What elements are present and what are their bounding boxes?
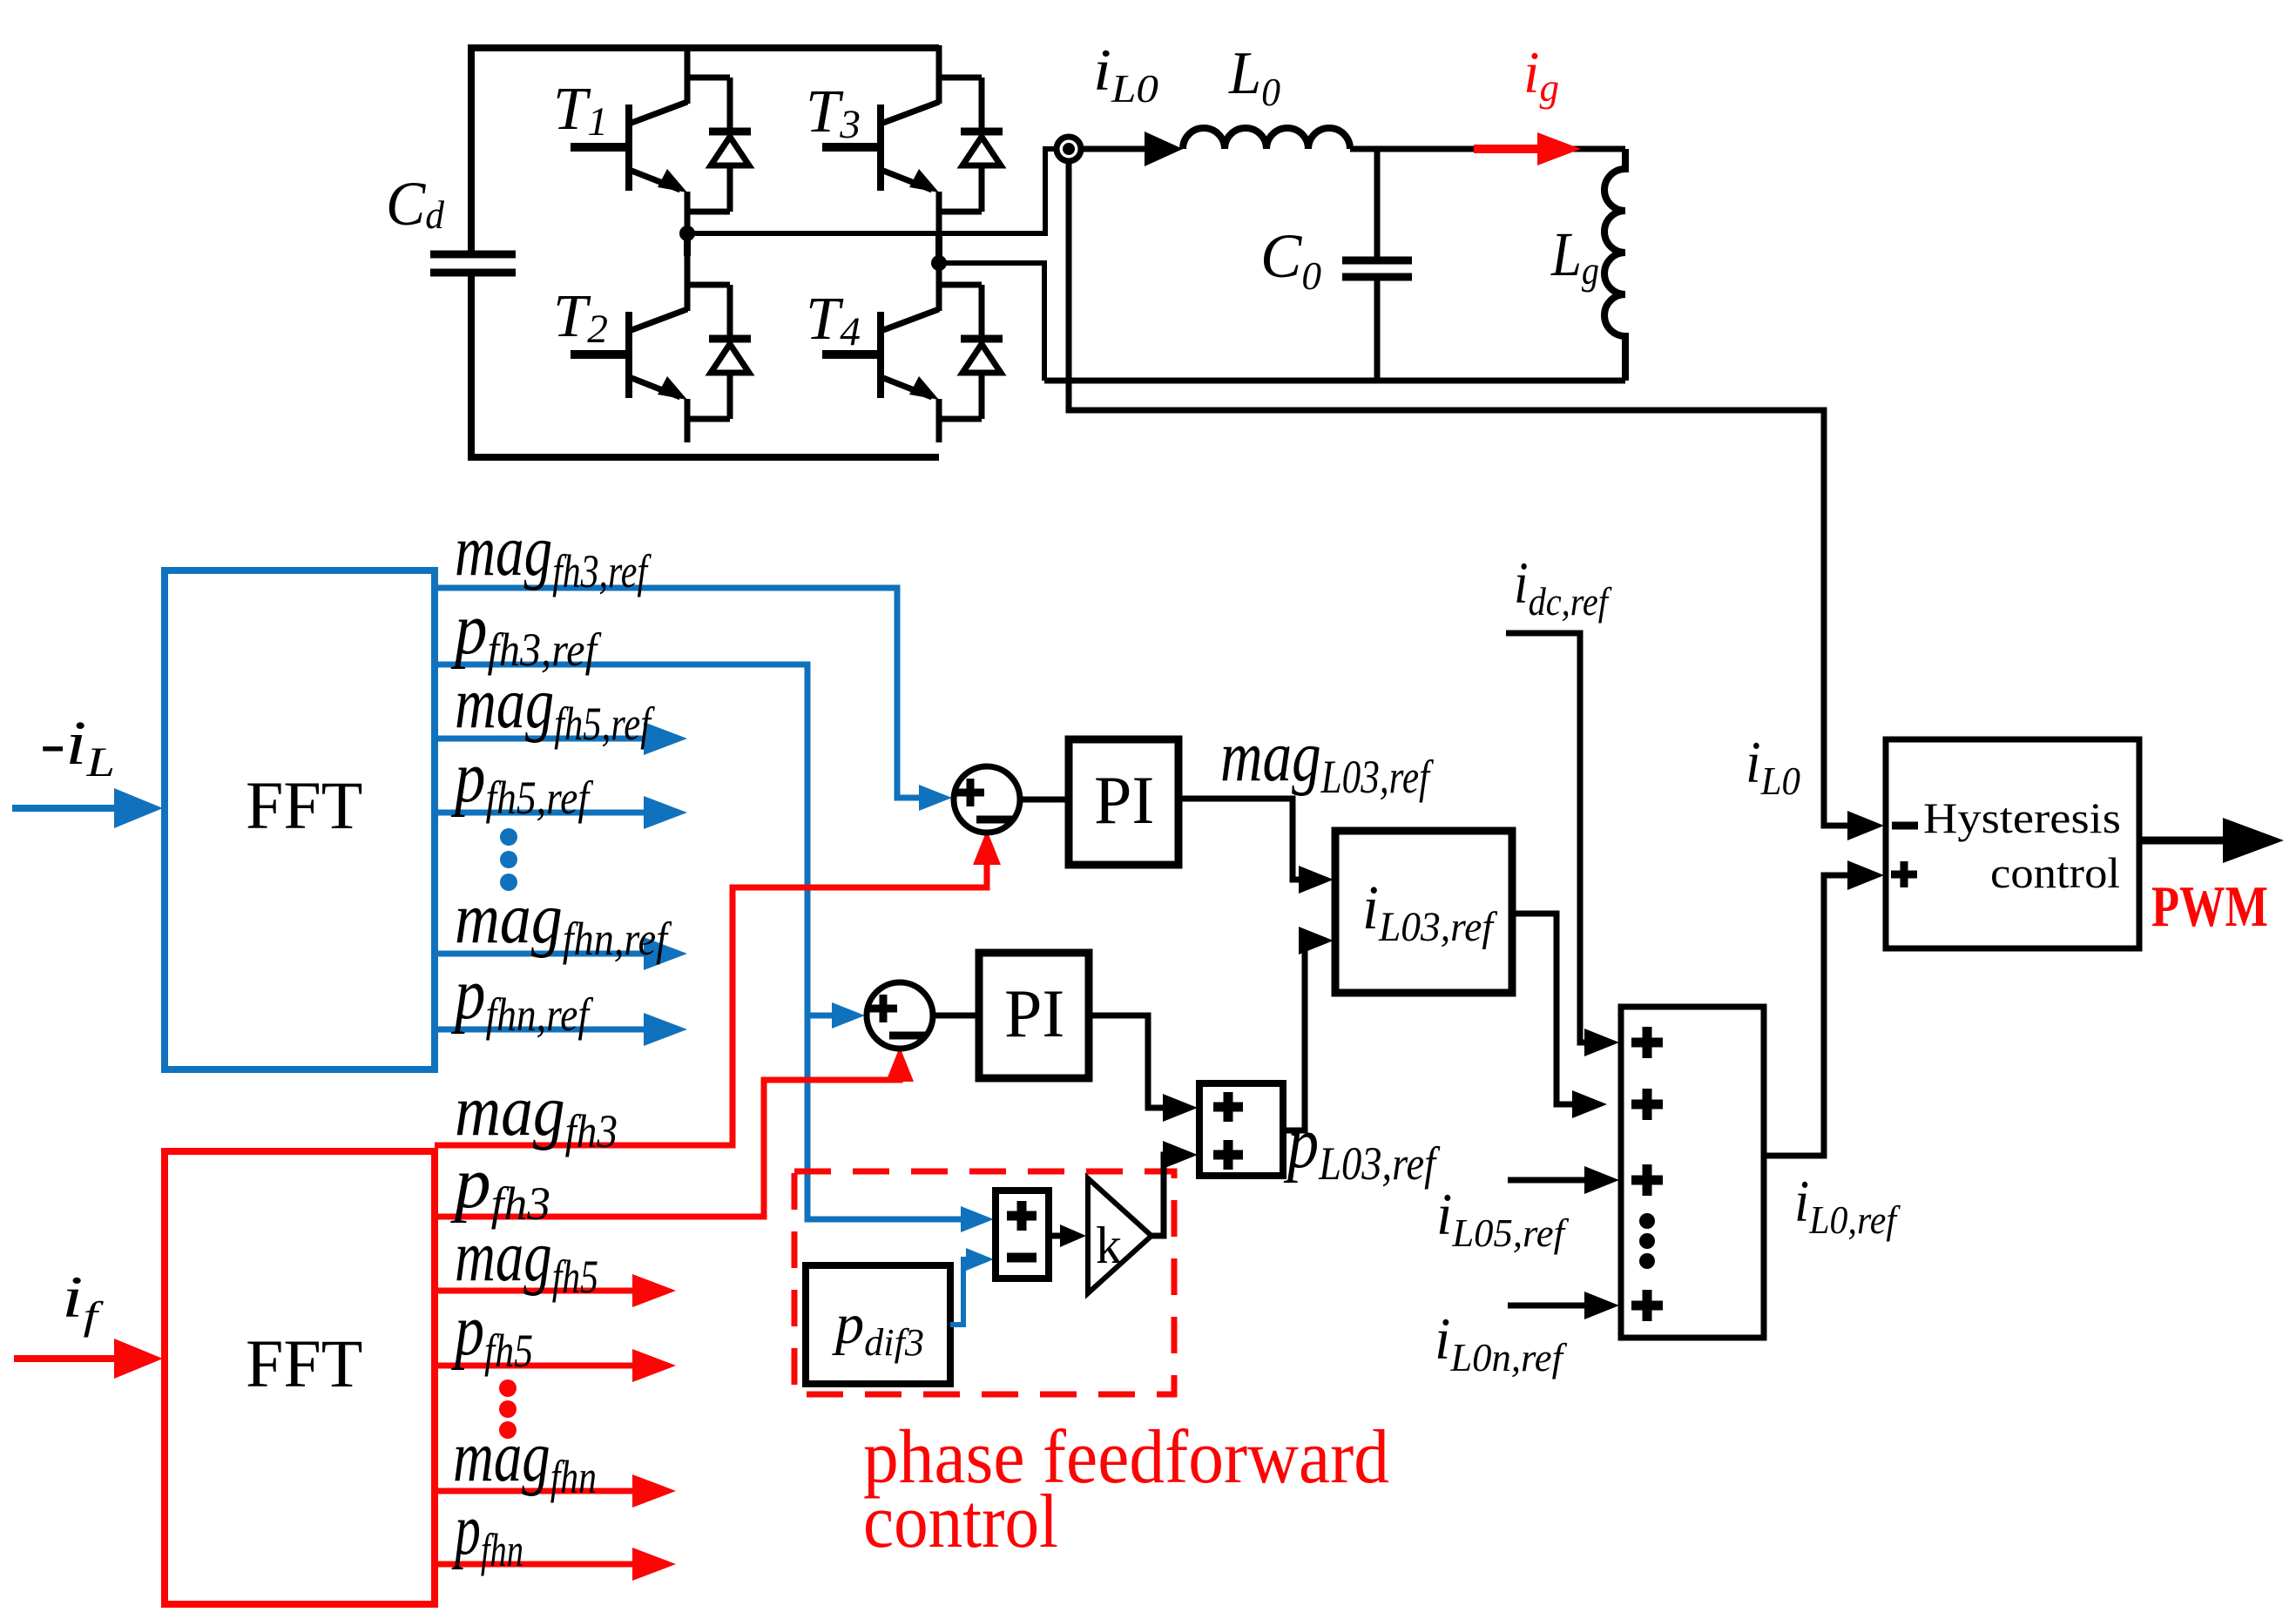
wire pfh5 bbox=[435, 1363, 640, 1369]
wire iL05,ref bbox=[1508, 1177, 1585, 1184]
wire magfhn bbox=[435, 1488, 640, 1494]
wire magfh3,ref bbox=[435, 588, 923, 798]
wire idc,ref bbox=[1506, 633, 1585, 1042]
wire pfh5,ref bbox=[435, 810, 652, 816]
wire iL0,ref to hysteresis bbox=[1764, 875, 1848, 1156]
svg-text:control: control bbox=[863, 1480, 1058, 1564]
wire pfh3,ref branch to phase comparator bbox=[807, 1013, 836, 1019]
wire iL0 measurement feedback bbox=[1069, 160, 1848, 826]
transistor T4 bbox=[822, 253, 939, 442]
freewheel diode of T4 bbox=[939, 285, 1003, 419]
wire junction1 to PI1 bbox=[1020, 797, 1069, 803]
wire junction2 to PI2 bbox=[933, 1013, 979, 1019]
freewheel diode of T1 bbox=[687, 78, 751, 212]
FFT block (red, measured if) bbox=[165, 1151, 435, 1604]
wire node A to filter (upper output) bbox=[687, 149, 1057, 233]
PI controller 1 bbox=[1069, 739, 1178, 865]
current probe iL0 bbox=[1057, 137, 1081, 161]
wire -iL input bbox=[12, 805, 129, 812]
svg-text:FFT: FFT bbox=[246, 1326, 362, 1401]
svg-text:PI: PI bbox=[1094, 762, 1154, 838]
summing junction 2 (phase) bbox=[867, 982, 933, 1049]
PI controller 2 bbox=[979, 953, 1089, 1078]
gain k triangle bbox=[1088, 1178, 1151, 1293]
wire iL03,ref to summer bbox=[1512, 914, 1575, 1104]
arrow ig (red) bbox=[1474, 145, 1543, 153]
wire bottom dc rail bbox=[471, 454, 939, 461]
svg-text:PI: PI bbox=[1004, 975, 1064, 1051]
svg-text:k: k bbox=[1096, 1217, 1122, 1274]
wire pfhn bbox=[435, 1562, 640, 1568]
wire PI2 to plus-plus summer bbox=[1089, 1015, 1165, 1108]
wire pfhn,ref bbox=[435, 1027, 652, 1033]
comparator +- box bbox=[996, 1191, 1049, 1278]
transistor T3 bbox=[822, 45, 939, 235]
svg-text:Hysteresis: Hysteresis bbox=[1923, 793, 2121, 842]
FFT block (blue, reference -iL) bbox=[165, 570, 435, 1069]
wire T2 collector to node A bbox=[684, 232, 691, 256]
block iL03,ref bbox=[1335, 831, 1512, 993]
wire pdif3 to comparator minus bbox=[950, 1259, 972, 1325]
wire L0 to Lg (top of filter loop) bbox=[1350, 146, 1625, 152]
block pdif3 bbox=[806, 1265, 950, 1384]
wire node B to filter (lower output) bbox=[939, 263, 1044, 381]
arrow comparator to gain k bbox=[1049, 1233, 1063, 1239]
wire pL03,ref to iL03 block bbox=[1283, 941, 1313, 1130]
freewheel diode of T3 bbox=[939, 78, 1003, 212]
summing junction 1 (magnitude) bbox=[954, 766, 1020, 833]
wire magfh5,ref bbox=[435, 736, 652, 742]
wire magfh3 bbox=[435, 858, 987, 1145]
wire magfhn,ref bbox=[435, 951, 652, 957]
dashed box phase feedforward control bbox=[794, 1171, 1174, 1394]
capacitor Cd bbox=[430, 254, 516, 273]
wire PWM output bbox=[2139, 837, 2223, 845]
wire if input bbox=[14, 1355, 129, 1362]
wire left dc rail bbox=[468, 44, 475, 461]
svg-text:control: control bbox=[1990, 848, 2120, 897]
svg-text:FFT: FFT bbox=[246, 767, 362, 843]
transistor T2 bbox=[571, 253, 687, 442]
arrow iL0 direction bbox=[1083, 146, 1148, 152]
svg-text:PWM: PWM bbox=[2151, 874, 2268, 939]
summer ++ (pL03) bbox=[1199, 1083, 1283, 1176]
wire iL0n,ref bbox=[1508, 1303, 1585, 1309]
summer iL0,ref (tall) bbox=[1621, 1007, 1764, 1338]
wire bottom of filter loop bbox=[1044, 378, 1625, 384]
capacitor C0 bbox=[1374, 149, 1381, 381]
ellipsis dots (red) bbox=[499, 1380, 517, 1397]
wire pfh3 bbox=[435, 1076, 900, 1217]
ellipsis dots (blue) bbox=[500, 828, 517, 846]
inductor Lg bbox=[1604, 149, 1625, 381]
block Hysteresis control bbox=[1886, 739, 2139, 948]
transistor T1 bbox=[571, 45, 687, 235]
inductor L0 bbox=[1183, 128, 1350, 149]
wire pfh3,ref bbox=[435, 664, 965, 1219]
wire k output to summer ++ bbox=[1148, 1155, 1167, 1236]
wire T3 emitter to node B bbox=[935, 232, 942, 265]
wire magfh5 bbox=[435, 1288, 640, 1294]
freewheel diode of T2 bbox=[687, 285, 751, 419]
wire magL03,ref bbox=[1178, 799, 1301, 880]
node A (T1-T2 midpoint) bbox=[679, 226, 695, 241]
wire top dc rail bbox=[471, 44, 939, 51]
node B (T3-T4 midpoint) bbox=[931, 255, 947, 271]
